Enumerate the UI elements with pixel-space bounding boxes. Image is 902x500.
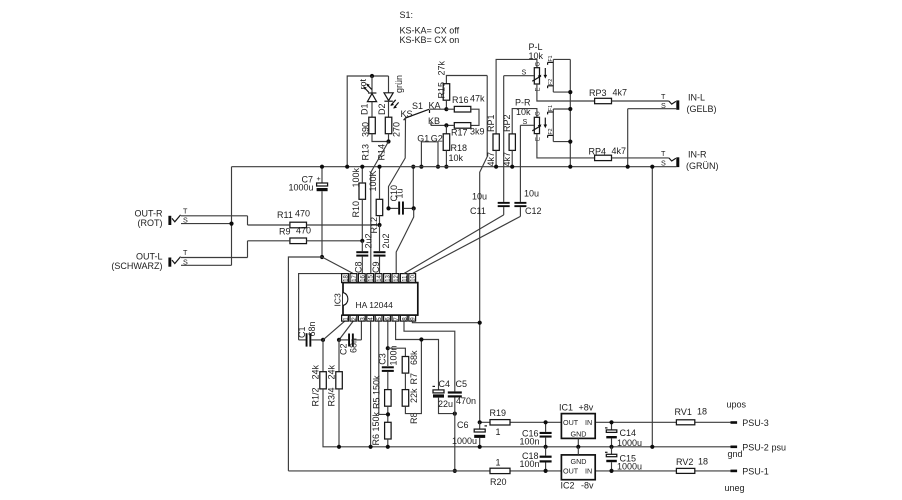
svg-text:rot: rot — [358, 78, 368, 89]
resistor R5 — [385, 390, 392, 407]
wire R14 bottom — [388, 134, 390, 142]
svg-text:T: T — [183, 207, 188, 216]
capacitor C11 — [498, 202, 510, 215]
terminal PSU-2 — [731, 446, 738, 449]
node OUT-R sleeve — [229, 222, 233, 226]
svg-text:IN-R: IN-R — [688, 150, 707, 160]
wire D2 to R14 — [388, 101, 390, 117]
resistor R17 — [454, 123, 471, 129]
node pin9 supply column — [478, 321, 482, 325]
svg-text:S: S — [522, 68, 527, 77]
svg-text:C9: C9 — [371, 261, 381, 273]
wire R16 right loop to R17 — [471, 109, 479, 125]
wire pin1 diagonal — [323, 321, 345, 340]
node R12 bus — [377, 165, 381, 169]
node input gnd bus — [650, 165, 654, 169]
svg-text:3k9: 3k9 — [470, 127, 485, 137]
svg-text:C8: C8 — [354, 261, 364, 273]
svg-text:(GRÜN): (GRÜN) — [686, 161, 719, 171]
svg-text:C3: C3 — [377, 353, 387, 365]
node F1 P-R — [568, 107, 572, 111]
switch contacts F1 F2 on P-L — [548, 59, 571, 92]
svg-text:100k: 100k — [351, 167, 361, 187]
wire IC2 gnd stub — [577, 447, 579, 455]
svg-text:gnd: gnd — [728, 449, 743, 459]
node R10 bus — [360, 165, 364, 169]
svg-text:+8v: +8v — [579, 402, 594, 412]
resistor RP1 — [493, 134, 499, 151]
resistor R13 — [369, 117, 376, 134]
svg-text:RP4: RP4 — [589, 147, 607, 157]
wire D2 cathode top — [388, 76, 390, 93]
node C16 gnd — [544, 445, 548, 449]
wire R12 bottom — [379, 216, 381, 225]
resistor R20 — [490, 468, 510, 473]
svg-text:+: + — [317, 174, 321, 183]
node switch column bus — [568, 165, 572, 169]
wire pot switch common column — [569, 59, 571, 166]
wire R15 top rail — [446, 76, 487, 84]
svg-text:100n: 100n — [520, 459, 540, 469]
svg-text:GND: GND — [571, 430, 587, 439]
svg-text:22k: 22k — [409, 388, 419, 403]
svg-text:R3/4: R3/4 — [327, 387, 337, 406]
wire input ground to psu gnd — [651, 167, 653, 447]
svg-text:S: S — [183, 257, 188, 266]
wire R5 bottom — [387, 406, 389, 422]
svg-text:F2: F2 — [548, 128, 554, 134]
wire R18 bottom — [445, 150, 447, 166]
node RP1 bus — [494, 165, 498, 169]
svg-text:S: S — [661, 101, 666, 110]
svg-text:F1: F1 — [548, 105, 554, 111]
svg-text:S: S — [183, 216, 188, 225]
wire pin4 column — [370, 321, 372, 447]
svg-text:upos: upos — [727, 400, 747, 410]
pin numbers top — [344, 274, 417, 281]
wire KB to node — [431, 124, 446, 126]
svg-text:R5 150k: R5 150k — [372, 375, 382, 409]
svg-text:10u: 10u — [524, 189, 539, 199]
node C4 C5 junction — [453, 412, 457, 416]
resistor R12 — [376, 199, 383, 215]
capacitor C15 — [605, 447, 617, 471]
potentiometer P-R — [512, 109, 547, 134]
resistor R14 — [385, 117, 392, 134]
svg-text:100K: 100K — [368, 170, 378, 191]
wire P-L wiper out to RP3 line — [537, 84, 595, 101]
svg-text:2u2: 2u2 — [381, 233, 391, 248]
wire OUT sleeve column — [231, 167, 233, 266]
svg-text:13: 13 — [386, 274, 392, 281]
wire R11 left — [248, 224, 290, 226]
svg-text:4k7: 4k7 — [613, 88, 628, 98]
node LED loop bus — [345, 165, 349, 169]
wire pin12 zigzag — [396, 208, 414, 273]
wire D1 anode — [371, 76, 373, 93]
svg-text:11: 11 — [402, 275, 408, 282]
terminal PSU-3 — [731, 421, 738, 424]
node C10 left — [386, 206, 390, 210]
resistor R3/4 — [336, 372, 343, 389]
svg-text:18: 18 — [698, 457, 708, 467]
svg-text:OUT: OUT — [563, 418, 579, 427]
resistor R9 — [290, 238, 307, 244]
svg-text:T: T — [661, 92, 666, 101]
node pin7 loop — [419, 337, 423, 341]
wire pin6 column — [387, 321, 389, 366]
capacitor C6 — [474, 422, 487, 447]
resistor R7 — [402, 357, 409, 374]
wire R12 top — [379, 167, 381, 200]
svg-text:R19: R19 — [490, 408, 507, 418]
svg-text:1: 1 — [496, 427, 501, 437]
svg-text:KS: KS — [401, 109, 413, 119]
wire R16 left — [446, 108, 454, 110]
wire R17 left — [446, 124, 454, 126]
wire main bus — [232, 166, 677, 168]
svg-text:1u: 1u — [394, 188, 404, 198]
svg-text:IC2: IC2 — [561, 481, 575, 491]
svg-text:OUT-R: OUT-R — [135, 208, 163, 218]
svg-text:R1/2: R1/2 — [311, 387, 321, 406]
svg-text:IC3: IC3 — [333, 293, 343, 307]
node C15 uneg — [609, 469, 613, 473]
svg-text:PSU-1: PSU-1 — [742, 466, 769, 476]
svg-text:D2: D2 — [377, 103, 387, 115]
capacitor C5 — [448, 391, 462, 471]
node IC1 gnd rail — [576, 445, 580, 449]
wire C12 diagonal to pin10 — [412, 216, 520, 273]
svg-text:4k7: 4k7 — [612, 146, 627, 156]
wire R9 left — [248, 240, 290, 242]
node R9 R10 C8 — [360, 239, 364, 243]
jack IN-L — [628, 100, 680, 109]
node R6 gnd rail — [386, 445, 390, 449]
wire C11 diagonal to pin11 — [404, 215, 504, 274]
svg-text:16: 16 — [360, 274, 366, 281]
svg-text:GND: GND — [571, 457, 587, 466]
node C2 left — [337, 338, 341, 342]
svg-text:R9: R9 — [279, 227, 291, 237]
svg-text:C14: C14 — [620, 428, 637, 438]
svg-text:(ROT): (ROT) — [138, 218, 163, 228]
node input gnd rail — [650, 445, 654, 449]
svg-text:1000u: 1000u — [289, 183, 314, 193]
wire C2 to pin3 — [360, 321, 362, 340]
svg-text:10u: 10u — [472, 192, 487, 202]
switch S1 arm KS-KA — [404, 109, 430, 120]
wire IC1 gnd stub — [577, 438, 579, 446]
svg-text:T: T — [661, 149, 666, 158]
wire RP3 to IN-L — [612, 100, 669, 102]
svg-text:17: 17 — [352, 274, 358, 281]
node R3/4 gnd rail — [337, 445, 341, 449]
wire RP2 bottom — [511, 150, 513, 166]
svg-text:470: 470 — [296, 226, 311, 236]
svg-text:4k7: 4k7 — [486, 152, 496, 167]
svg-text:470n: 470n — [456, 396, 476, 406]
wire KA to node — [430, 108, 447, 110]
svg-text:10k: 10k — [449, 153, 464, 163]
svg-text:C12: C12 — [525, 206, 542, 216]
svg-text:270: 270 — [392, 122, 402, 137]
svg-text:IC1: IC1 — [559, 402, 573, 412]
wire diagonal to pin 15 — [371, 142, 389, 274]
svg-text:S1:: S1: — [400, 10, 414, 20]
wire pin8 to C5 — [404, 321, 455, 391]
svg-text:RP2: RP2 — [502, 114, 512, 132]
wire R12half top — [322, 340, 324, 372]
svg-text:10: 10 — [411, 274, 417, 281]
wire R10 top — [361, 167, 363, 183]
terminal PSU-1 — [731, 470, 738, 473]
resistor R18 — [443, 134, 450, 151]
resistor R11 — [290, 222, 307, 228]
resistor R1/2 — [320, 372, 327, 389]
capacitor C4 — [433, 386, 455, 413]
wire pin17 diagonal — [322, 257, 353, 274]
svg-text:C2: C2 — [339, 343, 349, 355]
svg-text:47k: 47k — [470, 94, 485, 104]
wire R3/4 top — [338, 340, 340, 372]
svg-text:KB: KB — [428, 116, 440, 126]
node C7 bus — [320, 165, 324, 169]
svg-text:KS-KA= CX off: KS-KA= CX off — [400, 26, 460, 36]
svg-text:R6 150k: R6 150k — [371, 411, 381, 445]
wire RP1 bottom — [495, 150, 497, 166]
svg-text:C1: C1 — [297, 326, 307, 338]
wire R15 to KA node — [445, 100, 447, 109]
node C3 top — [386, 346, 390, 350]
resistor R19 — [490, 420, 510, 425]
svg-text:1000u: 1000u — [452, 436, 477, 446]
contact KB — [430, 122, 432, 125]
svg-text:OUT: OUT — [563, 467, 579, 476]
capacitor C2 — [339, 334, 361, 347]
svg-text:R17: R17 — [451, 128, 468, 138]
svg-text:HA 12044: HA 12044 — [356, 300, 394, 310]
svg-text:470: 470 — [295, 209, 310, 219]
svg-text:S: S — [661, 158, 666, 167]
wire R8 bottom loop — [405, 340, 421, 414]
node RP2 bus — [510, 165, 514, 169]
node G1 leg bus — [419, 165, 423, 169]
svg-text:G: G — [536, 62, 542, 67]
wire C3 node to R7 — [388, 348, 406, 356]
svg-text:C6: C6 — [457, 420, 469, 430]
svg-text:S: S — [523, 117, 528, 126]
node C1 right — [321, 338, 325, 342]
resistor RP2 — [509, 134, 515, 151]
svg-text:1000u: 1000u — [617, 462, 642, 472]
node upos C6 R19 — [478, 420, 482, 424]
resistor R10 — [359, 183, 366, 199]
svg-text:390: 390 — [361, 122, 371, 137]
capacitor C8 — [356, 241, 368, 274]
svg-text:100n: 100n — [389, 345, 399, 365]
wire G1 G2 bracket — [421, 142, 438, 167]
node pin4 gnd rail — [369, 445, 373, 449]
capacitor C9 — [374, 225, 386, 274]
wire LED loop left leg and top — [347, 76, 388, 167]
capacitor C3 — [382, 366, 394, 389]
node R13 R14 junction — [386, 139, 390, 143]
resistor RP3 — [595, 98, 612, 103]
jack IN-R — [669, 157, 680, 167]
node C7 pin17 left-loop junction — [320, 255, 324, 259]
wire pin9 to supply column — [412, 321, 479, 323]
node column bus — [411, 165, 415, 169]
svg-text:R16: R16 — [452, 95, 469, 105]
svg-text:24k: 24k — [311, 364, 321, 379]
wire left outer loop to uneg rail — [288, 257, 322, 471]
svg-text:R7: R7 — [409, 373, 419, 385]
svg-text:(SCHWARZ): (SCHWARZ) — [111, 261, 162, 271]
svg-text:18: 18 — [697, 407, 707, 417]
wire pin18 feed — [299, 274, 345, 340]
pin numbers bottom — [344, 317, 417, 321]
LED D1 rot — [363, 83, 377, 101]
svg-text:15: 15 — [369, 274, 375, 281]
node F2 P-L — [568, 90, 572, 94]
svg-text:R11: R11 — [277, 210, 293, 220]
svg-text:RP1: RP1 — [486, 114, 496, 132]
node R11 R12 C9 — [377, 223, 381, 227]
LED D2 gruen — [384, 93, 399, 109]
svg-text:C5: C5 — [456, 379, 468, 389]
node KA R15 R16 — [444, 107, 448, 111]
wire R1/2 bottom to gnd rail corner — [323, 389, 731, 447]
svg-text:-8v: -8v — [581, 481, 594, 491]
wire R11 right — [307, 224, 380, 226]
resistor R8 — [402, 390, 409, 407]
svg-text:12: 12 — [394, 274, 400, 281]
svg-text:1000u: 1000u — [617, 438, 642, 448]
node C14 upos — [609, 420, 613, 424]
wire pin2 diagonal — [339, 321, 353, 340]
wire KS down to C10 left — [389, 118, 406, 208]
wire P-R screen to C12 — [519, 125, 521, 202]
svg-text:1: 1 — [496, 458, 501, 468]
capacitor C10 — [389, 202, 414, 215]
note S1 legend — [400, 10, 460, 45]
wire C7 top — [321, 167, 323, 183]
node R18 bus — [444, 165, 448, 169]
svg-text:G: G — [536, 111, 542, 116]
capacitor C18 — [540, 447, 552, 471]
wire C7 bottom column — [321, 191, 323, 257]
resistor RV2 — [676, 468, 694, 473]
svg-text:IN-L: IN-L — [688, 93, 705, 103]
switch contacts F1 F2 on P-R — [548, 109, 571, 142]
node G2 leg bus — [436, 165, 440, 169]
svg-text:R20: R20 — [490, 477, 507, 487]
wire upos rail — [480, 421, 731, 423]
svg-text:S1: S1 — [412, 101, 423, 111]
wire RP4 to IN-R — [612, 157, 669, 159]
node C6 gnd rail — [478, 445, 482, 449]
resistor RP4 — [595, 155, 612, 160]
wire R7 R8 junction — [404, 373, 406, 390]
svg-text:4k7: 4k7 — [502, 152, 512, 167]
wire R3/4 bottom — [338, 389, 340, 447]
svg-text:PSU-2: PSU-2 — [742, 442, 769, 452]
wire pin5 column — [379, 321, 388, 414]
wire ground column to C10 — [412, 167, 414, 209]
wire R9 right — [307, 240, 363, 242]
svg-text:T: T — [183, 248, 188, 257]
jack OUT-R — [168, 215, 247, 225]
svg-text:uneg: uneg — [725, 483, 745, 493]
svg-text:100n: 100n — [520, 437, 540, 447]
svg-text:F1: F1 — [548, 55, 554, 61]
resistor R15 — [443, 84, 450, 101]
svg-text:(GELB): (GELB) — [687, 104, 717, 114]
svg-text:C11: C11 — [470, 206, 486, 216]
svg-text:KS-KB= CX on: KS-KB= CX on — [400, 35, 460, 45]
node C18 uneg — [544, 469, 548, 473]
IC IC3 HA12044 — [343, 283, 418, 316]
svg-text:RP3: RP3 — [589, 88, 607, 98]
wire R6 bottom — [387, 439, 389, 447]
svg-text:PSU-3: PSU-3 — [742, 418, 769, 428]
resistor RV1 — [676, 420, 694, 425]
svg-text:2u2: 2u2 — [364, 233, 374, 248]
node IN-L sleeve bus — [626, 165, 630, 169]
svg-text:IN: IN — [585, 418, 592, 427]
svg-text:grün: grün — [394, 75, 404, 93]
wire R18 top — [445, 125, 447, 133]
svg-text:P-R: P-R — [515, 98, 531, 108]
node C10 right — [412, 206, 416, 210]
IC IC2 regulator — [561, 455, 595, 480]
capacitor C1 — [299, 333, 323, 346]
wire pin7 to C4 — [396, 321, 439, 390]
node F2 P-R — [568, 140, 572, 144]
svg-text:68n: 68n — [349, 338, 359, 353]
capacitor C14 — [605, 422, 617, 447]
wire R10 bottom — [361, 199, 363, 241]
svg-text:68n: 68n — [307, 321, 317, 336]
svg-text:R15: R15 — [437, 82, 447, 99]
wire IN-L sleeve down — [627, 109, 629, 167]
node R5 R6 pin5 — [386, 412, 390, 416]
svg-text:22u: 22u — [438, 399, 453, 409]
pin stubs top 18-10 — [342, 274, 416, 283]
svg-text:R13: R13 — [361, 144, 371, 161]
node KB R17 R18 — [444, 123, 448, 127]
svg-text:IN: IN — [585, 467, 592, 476]
svg-text:OUT-L: OUT-L — [136, 251, 163, 261]
wire uneg rail — [288, 470, 730, 472]
potentiometer P-L — [496, 59, 547, 133]
wire R15 column to upos — [480, 76, 488, 423]
wire OUT-L tip jog — [247, 241, 249, 258]
svg-text:RV2: RV2 — [676, 457, 693, 467]
svg-text:R8: R8 — [409, 412, 419, 424]
wire P-R wiper out to RP4 line — [537, 134, 595, 158]
node C16 upos — [544, 420, 548, 424]
node D1 top junction — [370, 74, 374, 78]
IC IC1 regulator — [561, 414, 595, 439]
wire R13 bottom — [372, 134, 389, 142]
jack OUT-L — [168, 257, 247, 267]
svg-text:18: 18 — [344, 274, 350, 281]
resistor R6 — [385, 422, 392, 439]
svg-text:R10: R10 — [351, 201, 361, 218]
node C5 uneg rail — [453, 469, 457, 473]
